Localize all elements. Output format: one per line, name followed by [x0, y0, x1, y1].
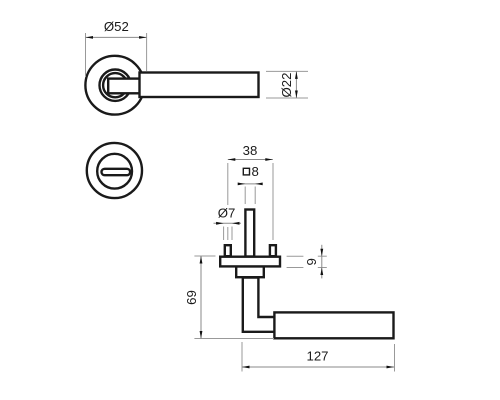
- rose outer circle: [85, 56, 144, 115]
- svg-text:Ø52: Ø52: [104, 19, 129, 34]
- dimension 69 extension line bottom: [194, 338, 274, 340]
- dimension 9 extension line top: [287, 255, 304, 257]
- dimension 127 extension line right: [394, 344, 396, 372]
- dimension Ø22 top arrow: [295, 71, 298, 79]
- svg-text:Ø22: Ø22: [279, 73, 294, 98]
- dimension Ø22 bottom arrow: [295, 91, 298, 99]
- dimension 38 extension line right: [272, 163, 274, 240]
- dimension Ø7 extension line right: [231, 227, 233, 241]
- rose collar (side): [236, 266, 264, 277]
- dimension Ø52 extension line right: [146, 33, 148, 71]
- right screw post: [270, 245, 276, 256]
- svg-text:Ø7: Ø7: [218, 206, 236, 221]
- dimension 9 tick top: [318, 255, 327, 257]
- dimension Ø22 extension dash bottom: [266, 97, 308, 99]
- escutcheon turn slot: [102, 169, 131, 175]
- dimension 9 tick bottom: [318, 267, 327, 269]
- rose inner ring inner circle: [103, 73, 127, 97]
- svg-text:8: 8: [252, 164, 259, 179]
- dimension Ø22 extension dash top: [266, 70, 308, 72]
- svg-text:127: 127: [306, 349, 328, 364]
- dimension 69 bottom arrow: [200, 331, 203, 339]
- svg-text:38: 38: [243, 143, 258, 158]
- rose inner ring outer circle: [100, 70, 131, 101]
- dimension 127 extension line left: [241, 342, 243, 372]
- dimension Ø7 left arrow: [216, 222, 224, 225]
- dimension 38 line: [228, 159, 273, 161]
- handle grip (plan): [140, 73, 259, 98]
- handle neck (plan): [108, 79, 140, 94]
- square spindle: [245, 210, 254, 257]
- dimension Ø7 right arrow: [232, 222, 240, 225]
- dimension 127 right arrow: [387, 366, 395, 369]
- dimension 69 line: [200, 256, 202, 339]
- dimension 8 extension line right: [254, 187, 256, 205]
- escutcheon inner circle: [97, 154, 132, 189]
- dimension 38 extension line left upper: [227, 163, 229, 205]
- svg-text:9: 9: [304, 258, 319, 265]
- dimension Ø7 line: [214, 222, 242, 224]
- left screw post: [225, 245, 231, 256]
- dimension 9 top arrow: [320, 249, 323, 257]
- handle grip (side): [274, 312, 393, 338]
- dimension 9 bottom arrow: [320, 268, 323, 276]
- dimension 8 line: [238, 183, 262, 185]
- dimension 38 right arrow: [265, 158, 273, 161]
- dimension 38 left arrow: [228, 158, 236, 161]
- dimension Ø22 line: [295, 71, 297, 98]
- dimension 38 extension line left lower: [227, 227, 229, 240]
- dimension 127 left arrow: [242, 366, 250, 369]
- handle neck (side): [243, 278, 275, 332]
- dimension Ø52 extension line left: [85, 33, 87, 77]
- rose back plate (side): [220, 257, 280, 267]
- dimension Ø52 line: [86, 36, 147, 38]
- svg-text:69: 69: [184, 290, 199, 305]
- dimension Ø7 extension line left: [223, 227, 225, 241]
- dimension 8 right arrow: [255, 183, 263, 186]
- dimension 69 extension line top: [194, 255, 215, 257]
- dimension 9 extension line bottom: [287, 267, 304, 269]
- dimension Ø52 right arrow: [139, 36, 147, 39]
- dimension square-8 symbol: [243, 168, 249, 175]
- escutcheon outer circle: [87, 143, 142, 198]
- dimension 69 top arrow: [200, 256, 203, 264]
- dimension 127 line: [242, 366, 394, 368]
- dimension 8 extension line left: [244, 187, 246, 205]
- dimension Ø52 left arrow: [86, 36, 94, 39]
- dimension 8 left arrow: [238, 183, 246, 186]
- dimension 9 line: [321, 245, 323, 279]
